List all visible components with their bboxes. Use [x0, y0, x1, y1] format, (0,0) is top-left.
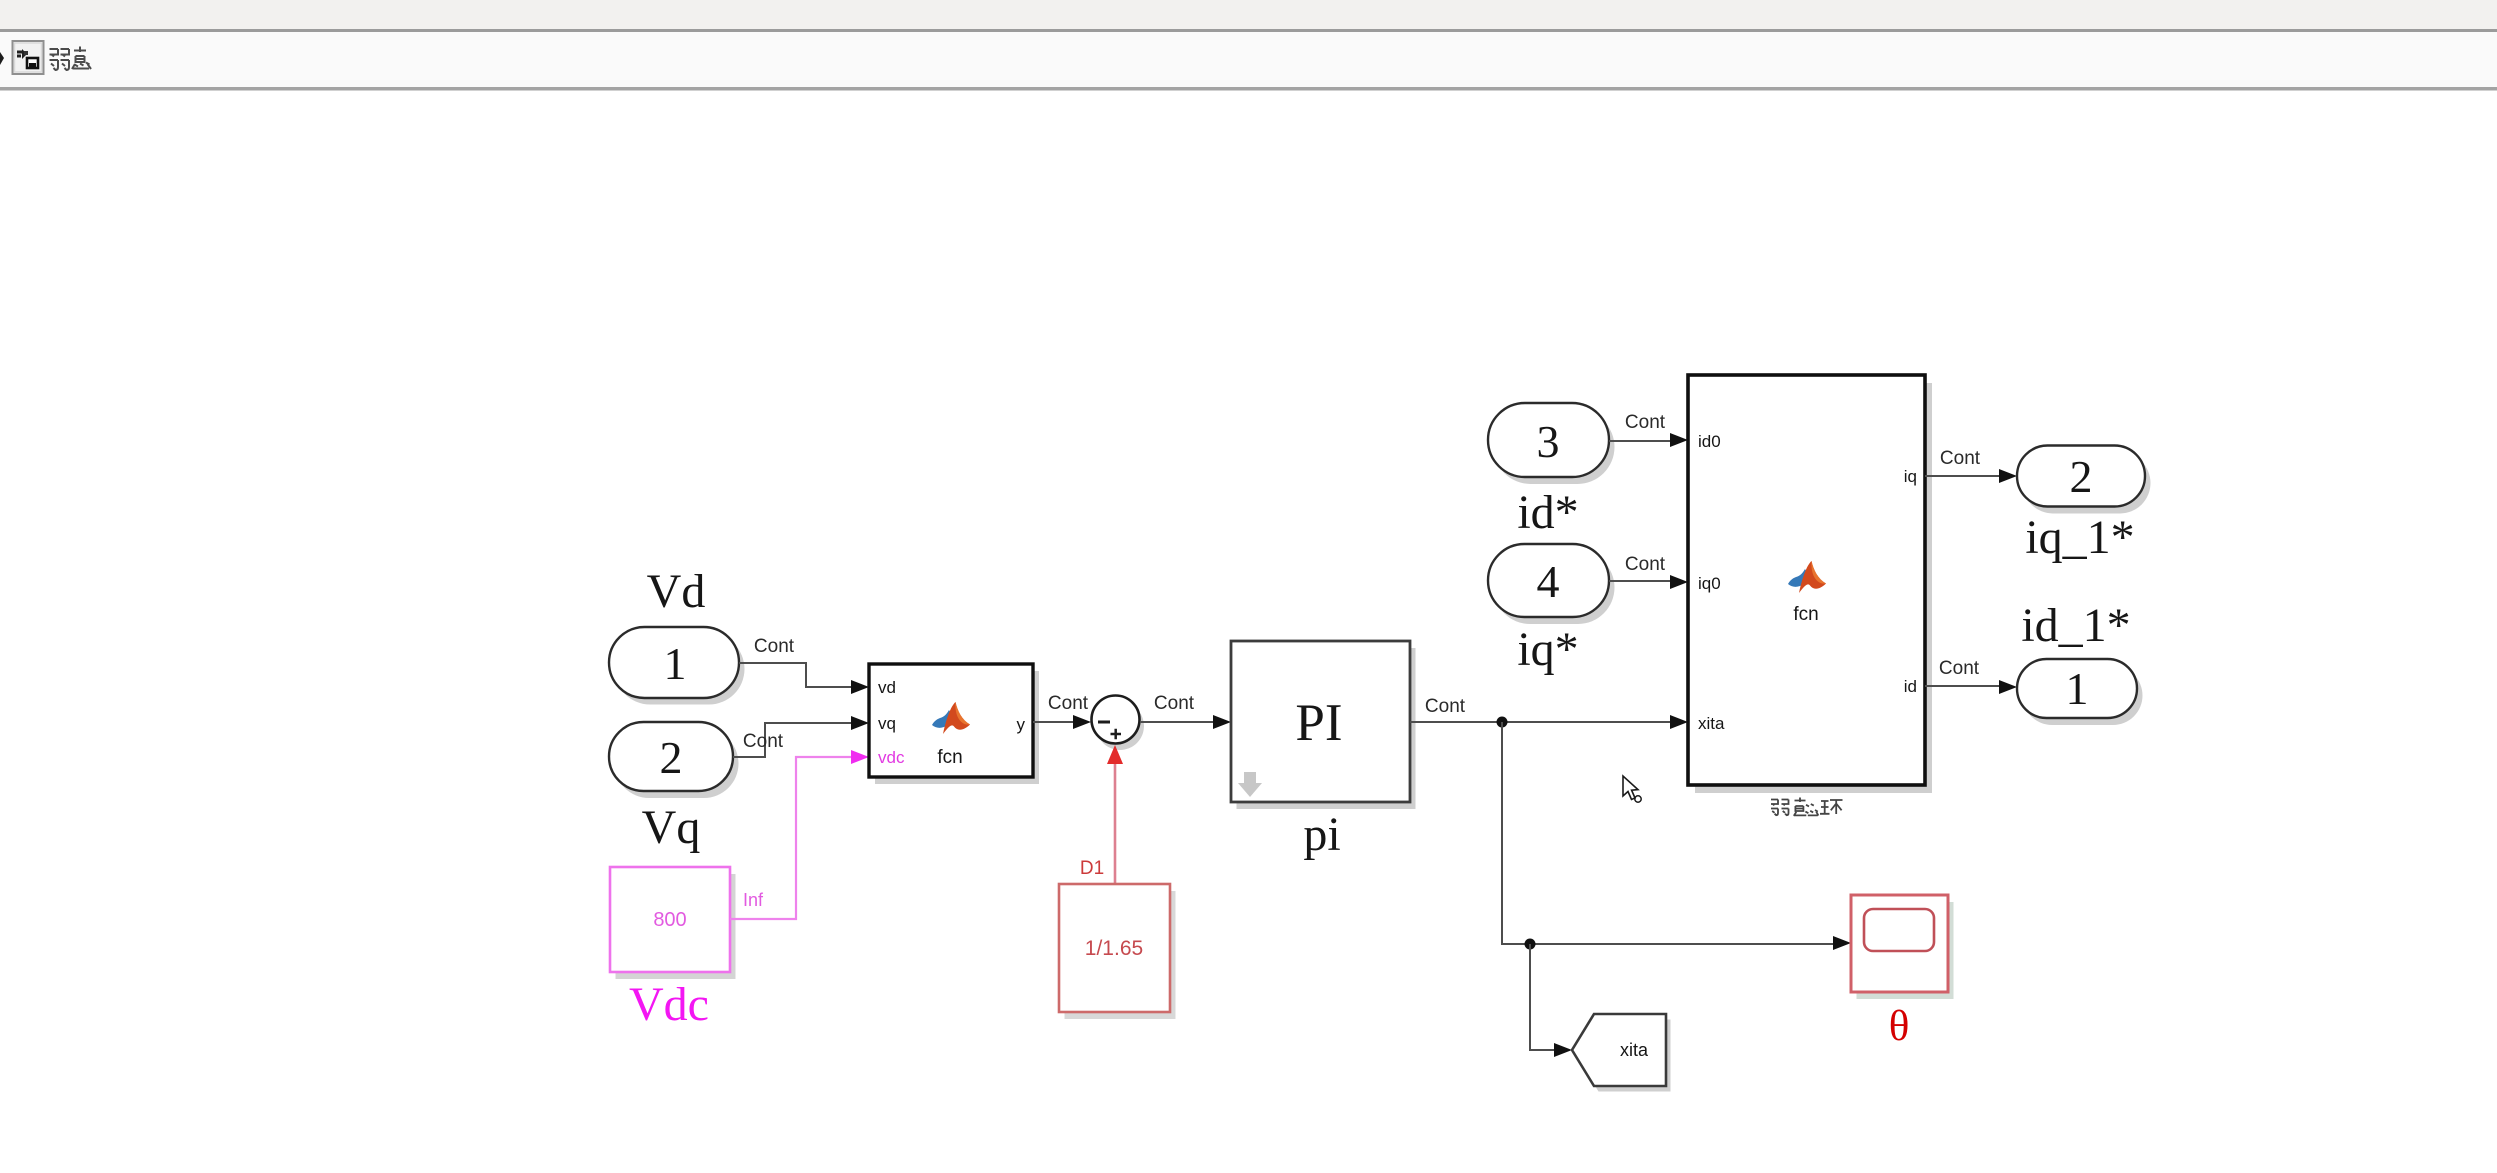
svg-text:xita: xita — [1620, 1040, 1649, 1060]
junction node A — [1497, 717, 1508, 728]
signal label Cont (1) — [754, 636, 795, 657]
svg-text:Vd: Vd — [647, 565, 706, 618]
outport 2 (iq_1*) — [2017, 446, 2151, 514]
svg-text:Cont: Cont — [1048, 693, 1089, 714]
matlab logo (big fcn) — [1788, 561, 1826, 593]
svg-text:Vdc: Vdc — [629, 978, 709, 1031]
wire D1 -> sum (red) — [1114, 762, 1117, 884]
svg-text:iq*: iq* — [1517, 623, 1578, 676]
svg-text:θ: θ — [1889, 1003, 1910, 1050]
junction node B — [1525, 939, 1536, 950]
variant badge (gray down arrow) — [1238, 772, 1262, 797]
inport 1 (Vd) — [609, 627, 745, 705]
inport 4 (iq*) — [1488, 544, 1615, 624]
wire inport2 -> fcn vq — [733, 723, 852, 757]
inport 2 (Vq) — [609, 722, 739, 798]
constant D1 1/1.65 (red) — [1059, 884, 1176, 1019]
arrowhead into outport 2 — [1999, 469, 2017, 483]
toolbar top strip — [0, 0, 2497, 32]
wire iq -> outport 2 — [1925, 475, 2000, 477]
svg-text:Cont: Cont — [743, 731, 784, 752]
outport 1 (id_1*) — [2017, 659, 2143, 725]
wire fcn y -> sum — [1033, 721, 1074, 723]
constant 800 (Vdc) — [610, 867, 736, 979]
svg-text:vq: vq — [878, 714, 896, 733]
wire branch down to scope — [1502, 722, 1834, 944]
svg-text:2: 2 — [660, 732, 683, 783]
svg-text:1: 1 — [2066, 663, 2089, 714]
svg-text:1: 1 — [664, 638, 687, 689]
svg-text:1/1.65: 1/1.65 — [1085, 937, 1143, 960]
wire PI -> xita input of big block (with branch) — [1410, 721, 1671, 723]
signal label Cont (4) — [1154, 693, 1195, 714]
block name 弱磁环 (drawn strokes) — [1771, 798, 1843, 816]
signal label Cont (7) — [1625, 554, 1666, 575]
inport 3 (id*) — [1488, 403, 1615, 484]
arrowhead into id0 — [1670, 433, 1688, 447]
arrowhead into vq — [851, 716, 869, 730]
arrowhead into iq0 — [1670, 575, 1688, 589]
svg-text:2: 2 — [2070, 451, 2093, 502]
svg-text:pi: pi — [1303, 808, 1340, 861]
svg-text:id0: id0 — [1698, 432, 1721, 451]
PI subsystem block — [1231, 641, 1416, 809]
svg-text:id_1*: id_1* — [2021, 599, 2130, 652]
signal label Inf — [743, 890, 764, 910]
svg-text:iq0: iq0 — [1698, 574, 1721, 593]
svg-text:vd: vd — [878, 678, 896, 697]
signal label D1 — [1080, 858, 1104, 879]
svg-text:800: 800 — [653, 909, 686, 931]
svg-text:iq_1*: iq_1* — [2025, 511, 2134, 564]
wire sum -> PI — [1140, 721, 1214, 723]
wire 800 -> fcn vdc (magenta) — [730, 757, 852, 919]
wire id -> outport 1 — [1925, 685, 2000, 687]
signal label Cont (2) — [743, 731, 784, 752]
label Vdc — [629, 978, 709, 1031]
sum block — [1092, 696, 1145, 751]
signal label Cont (5) — [1425, 696, 1466, 717]
svg-text:fcn: fcn — [937, 747, 962, 768]
goto tag xita — [1572, 1014, 1671, 1092]
breadcrumb nav arrow fragment — [0, 52, 4, 65]
arrowhead red into sum bottom — [1107, 745, 1123, 764]
svg-text:id: id — [1904, 677, 1917, 696]
svg-text:id*: id* — [1517, 486, 1578, 539]
arrowhead into sum — [1073, 715, 1091, 729]
label iq_1* — [2025, 511, 2134, 564]
label id* — [1517, 486, 1578, 539]
matlab logo (small fcn) — [932, 702, 970, 734]
wire inport3 -> id0 — [1609, 440, 1671, 442]
arrowhead into goto — [1554, 1043, 1572, 1057]
label Vd — [647, 565, 706, 618]
svg-text:Vq: Vq — [642, 801, 701, 854]
svg-text:Cont: Cont — [1154, 693, 1195, 714]
svg-text:PI: PI — [1295, 694, 1342, 752]
wire branch down to goto xita — [1530, 944, 1555, 1050]
svg-text:Cont: Cont — [1940, 448, 1981, 469]
signal label Cont (9) — [1939, 658, 1980, 679]
label Vq — [642, 801, 701, 854]
breadcrumb title 弱磁 (drawn strokes) — [50, 47, 92, 71]
svg-text:D1: D1 — [1080, 858, 1104, 879]
signal label Cont (8) — [1940, 448, 1981, 469]
svg-text:xita: xita — [1698, 714, 1725, 733]
matlab function block (field weakening loop) — [1688, 375, 1932, 793]
svg-text:Inf: Inf — [743, 890, 764, 910]
svg-text:Cont: Cont — [1939, 658, 1980, 679]
matlab function block fcn — [869, 664, 1039, 784]
scope block (red) — [1851, 895, 1954, 999]
svg-text:3: 3 — [1537, 416, 1560, 467]
svg-text:Cont: Cont — [1625, 554, 1666, 575]
wire inport1 -> fcn vd — [739, 663, 852, 687]
svg-text:iq: iq — [1904, 467, 1917, 486]
signal label Cont (3) — [1048, 693, 1089, 714]
arrowhead into scope — [1833, 936, 1851, 950]
arrowhead into outport 1 — [1999, 680, 2017, 694]
breadcrumb bar — [0, 32, 2497, 91]
mouse cursor — [1623, 776, 1641, 802]
svg-text:4: 4 — [1537, 556, 1560, 607]
svg-text:Cont: Cont — [1625, 412, 1666, 433]
svg-text:vdc: vdc — [878, 748, 905, 767]
svg-text:y: y — [1017, 715, 1026, 734]
svg-text:fcn: fcn — [1793, 604, 1818, 625]
breadcrumb subsystem icon — [13, 41, 44, 74]
arrowhead into vdc (magenta) — [851, 750, 869, 764]
label pi — [1303, 808, 1340, 861]
svg-text:Cont: Cont — [1425, 696, 1466, 717]
signal label Cont (6) — [1625, 412, 1666, 433]
arrowhead into xita port — [1670, 715, 1688, 729]
wire inport4 -> iq0 — [1609, 581, 1671, 582]
label iq* — [1517, 623, 1578, 676]
arrowhead into PI — [1213, 715, 1231, 729]
arrowhead into vd — [851, 680, 869, 694]
svg-text:Cont: Cont — [754, 636, 795, 657]
label θ — [1889, 1003, 1910, 1050]
label id_1* — [2021, 599, 2130, 652]
